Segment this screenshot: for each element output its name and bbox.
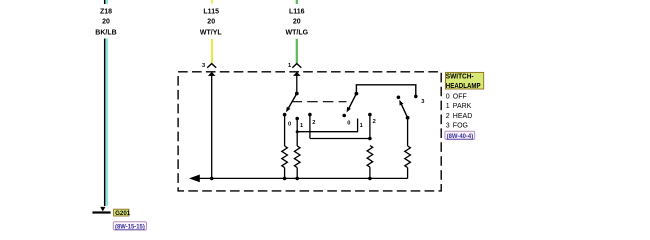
svg-text:3: 3 [202,63,205,69]
svg-text:(8W-15-15): (8W-15-15) [115,223,145,230]
wire contact2 pole1 to resistor R3 [310,138,370,140]
svg-text:(8W-40-4): (8W-40-4) [447,133,474,140]
resistor R4 [405,118,411,179]
svg-text:L115: L115 [203,8,219,15]
ground bus with arrow [189,175,408,183]
resistor R2 [294,146,300,180]
svg-text:1: 1 [288,63,291,69]
contact 2 pole 2 [368,113,372,141]
link 8W-15-15 [113,222,146,231]
contact pole 3 (floating) [397,96,401,100]
wire pin1 to wiper pivot [296,75,298,94]
label L115 20 WT/YL [200,8,222,36]
svg-text:HEADLAMP: HEADLAMP [446,83,481,90]
wire pin3 to bus [210,75,214,181]
contact 2 pole 1 [308,113,312,139]
resistor R3 [367,146,373,181]
wire contact1 pole1 to contact1 pole2 [297,119,357,132]
label Z18 20 BK/LB [95,8,116,36]
wire L116 WT/LG vertical [296,39,298,63]
contact 0 pole 1 [283,113,287,146]
wire L116 top stub [296,0,298,4]
svg-text:20: 20 [207,19,215,26]
svg-text:3: 3 [446,123,450,130]
svg-text:0: 0 [288,121,291,127]
label G201 [114,209,131,217]
svg-text:2: 2 [373,119,376,125]
label L116 20 WT/LG [286,8,309,36]
svg-text:2: 2 [446,113,450,120]
headlamp switch dashed box [178,72,441,191]
label SWITCH-HEADLAMP [446,72,484,90]
wire Z18 BK/LB vertical [105,39,107,207]
svg-text:FOG: FOG [453,123,468,130]
svg-text:PARK: PARK [453,103,472,110]
svg-text:1: 1 [360,123,363,129]
svg-text:SWITCH-: SWITCH- [446,73,474,80]
svg-text:OFF: OFF [453,93,467,100]
wire Z18 top stub [105,0,107,4]
svg-text:0: 0 [347,120,350,126]
connector pin 1 [288,63,301,76]
ground G201 [92,207,110,214]
svg-text:3: 3 [421,99,424,105]
link 8W-40-4 [445,131,475,140]
svg-text:WT/LG: WT/LG [286,30,309,37]
svg-text:20: 20 [293,19,301,26]
mechanical linkage [292,101,347,103]
contact 1 pole 1 [295,117,299,146]
svg-text:BK/LB: BK/LB [95,30,116,37]
svg-text:2: 2 [312,120,315,126]
resistor R1 [282,146,288,180]
switch wiper pole 2 with rail to position 3 [347,85,418,113]
svg-text:1: 1 [446,103,450,110]
svg-text:1: 1 [300,123,303,129]
svg-text:G201: G201 [115,210,131,217]
svg-text:20: 20 [102,19,110,26]
svg-text:WT/YL: WT/YL [200,30,222,37]
svg-text:Z18: Z18 [100,8,112,15]
switch wiper pole 3 [399,100,409,120]
wire L115 top stub [211,0,213,4]
connector pin 3 [202,63,216,76]
wire L115 WT/YL vertical [211,39,213,63]
contact 0 pole 2 (floating) [342,114,346,118]
svg-text:HEAD: HEAD [453,113,472,120]
svg-text:L116: L116 [289,8,305,15]
switch wiper pole 1 [286,92,299,113]
svg-text:0: 0 [446,93,450,100]
